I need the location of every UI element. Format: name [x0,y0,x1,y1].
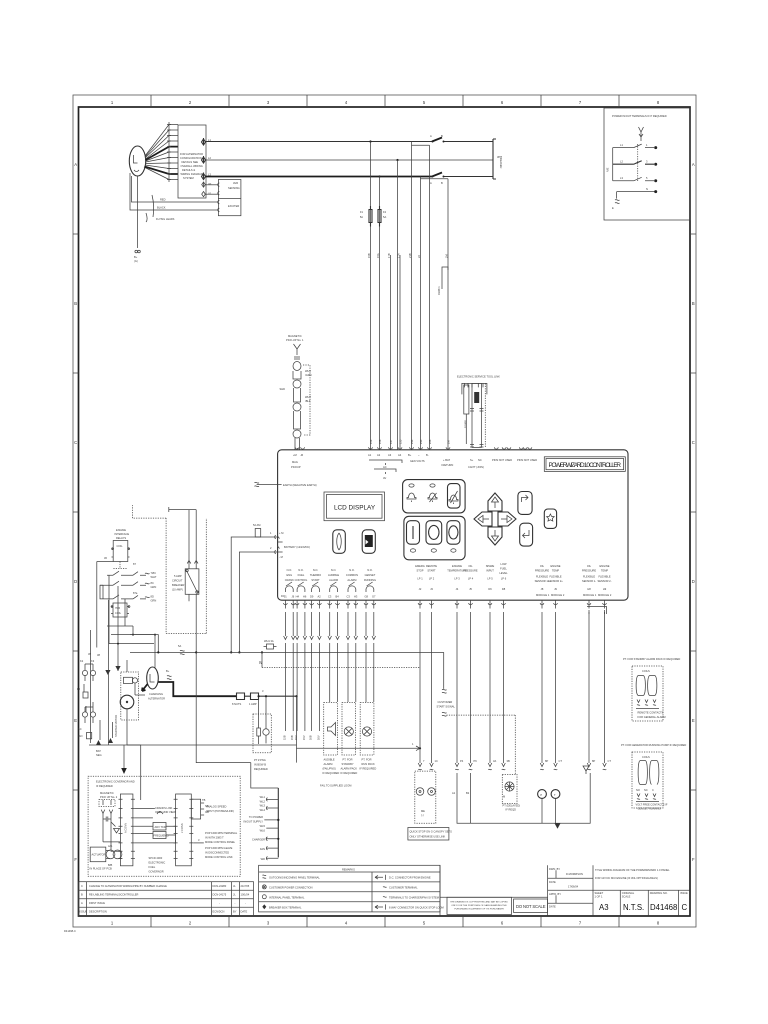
svg-text:ALTERNATOR: ALTERNATOR [148,697,165,701]
svg-text:MODULE 2: MODULE 2 [598,593,612,597]
svg-text:(G): (G) [134,259,138,263]
audible alarm dashed box [323,703,340,776]
svg-text:IF REQUIRED: IF REQUIRED [360,767,377,771]
svg-text:ONLY FOR THE PURPOSES OF SAFEG: ONLY FOR THE PURPOSES OF SAFEGUARDING TH… [451,904,507,907]
svg-text:D8: D8 [502,587,506,591]
ground symbol right [583,766,589,774]
svg-text:ORIGINAL: ORIGINAL [622,891,635,895]
svg-text:REMARKS: REMARKS [342,867,355,871]
svg-text:MODULE 1: MODULE 1 [583,593,597,597]
quick stop contacts [416,788,424,796]
svg-text:FAN: FAN [260,847,265,851]
svg-text:ADV TKD: ADV TKD [155,825,166,829]
svg-text:52 AM: 52 AM [253,523,260,527]
svg-text:CAN'T (JOIN): CAN'T (JOIN) [468,465,484,469]
open arrow terminals [418,763,606,770]
svg-text:START SIGNAL: START SIGNAL [437,705,456,709]
wire to governor strip [127,745,141,800]
svg-text:IN/OUT SUPPLY: IN/OUT SUPPLY [243,820,263,824]
relay contact symbols [285,582,373,592]
svg-text:8D: 8D [151,595,154,599]
svg-text:FOR GENERAL ALARM: FOR GENERAL ALARM [638,715,666,719]
arrow to governor [123,745,125,768]
svg-text:FAIL TO SUPPLIED LOOM: FAIL TO SUPPLIED LOOM [320,784,351,788]
svg-text:CHARGER: CHARGER [252,838,265,842]
breaker bracket [493,139,496,179]
label earth [278,484,282,486]
svg-text:MAGNETIC: MAGNETIC [288,334,302,338]
line fuse F6 [264,639,277,649]
input wires below controller [408,612,611,840]
svg-text:VOLT FREE CONTACTS IF: VOLT FREE CONTACTS IF [636,803,668,807]
svg-text:D6: D6 [488,587,492,591]
svg-text:P6: P6 [474,759,478,763]
label battery [278,542,283,552]
fuse 8 nuts [237,693,251,700]
svg-text:159: 159 [369,439,373,444]
svg-text:APPD. BY: APPD. BY [549,892,561,896]
svg-text:CRANKS LINK: CRANKS LINK [155,806,173,810]
svg-text:F: F [74,857,77,862]
svg-text:5A: 5A [178,644,181,648]
unused pins group2 [519,447,531,449]
controller top pin terminals [291,439,537,480]
svg-text:SENSOR 1-: SENSOR 1- [582,579,596,583]
svg-text:COIL: COIL [117,544,124,548]
svg-text:STOP: STOP [416,569,423,573]
svg-text:GOVERNOR: GOVERNOR [149,870,164,874]
svg-text:H9: H9 [603,587,607,591]
fuse F1 [369,206,372,227]
svg-text:G8: G8 [365,595,369,599]
svg-text:MODE CONTROL PANEL: MODE CONTROL PANEL [205,840,236,844]
earth stub [615,200,620,204]
svg-text:AVR: AVR [233,181,238,185]
svg-text:TERMINALS TO CHARGER/FAN SYSTE: TERMINALS TO CHARGER/FAN SYSTEM [389,895,439,899]
svg-text:LOW: LOW [501,562,507,566]
svg-text:POP 1600 RPM LEAVE: POP 1600 RPM LEAVE [205,846,233,850]
svg-text:GRN: GRN [151,585,157,589]
svg-text:COILS: COILS [642,755,650,759]
svg-text:OIL: OIL [468,564,473,568]
svg-text:WL5: WL5 [260,824,266,828]
svg-text:226: 226 [428,439,432,444]
svg-text:IN DISCONNECTED: IN DISCONNECTED [205,851,229,855]
svg-text:FOR ALTERNATOR: FOR ALTERNATOR [180,152,203,156]
svg-text:WL1: WL1 [260,795,266,799]
svg-text:1C: 1C [435,759,438,763]
keypad up arrow [488,493,502,511]
svg-text:D.MORRISON: D.MORRISON [566,872,583,876]
svg-text:43/48 1: 43/48 1 [437,286,441,295]
svg-text:ME: ME [421,809,425,813]
revision table [79,882,254,916]
svg-text:SENSING: SENSING [228,186,240,190]
svg-text:GENSET RUNNING: GENSET RUNNING [638,807,661,811]
breaker feed wires [169,507,196,569]
svg-text:ISSUE: ISSUE [680,891,688,895]
svg-text:CIRCUIT: CIRCUIT [172,579,183,583]
svg-text:- M: - M [279,555,283,559]
svg-text:A1: A1 [368,453,372,457]
svg-text:8P: 8P [592,759,595,763]
svg-text:WHT: WHT [305,369,311,373]
svg-text:PT (DELAYED): PT (DELAYED) [503,804,521,808]
svg-text:N.O.: N.O. [287,568,293,572]
svg-text:NEG: NEG [96,753,102,757]
svg-text:OIL: OIL [540,564,545,568]
charging alternator G2 [142,667,298,763]
svg-text:E: E [612,206,614,210]
svg-text:POP 1600 RPM TERMINAL: POP 1600 RPM TERMINAL [205,831,238,835]
coil feed wire [97,562,113,632]
svg-text:LP 2: LP 2 [429,577,435,581]
svg-text:N/E: N/E [606,167,610,172]
svg-text:5A: 5A [360,215,363,219]
remarks legend table [259,865,444,912]
svg-text:ACTUATOR: ACTUATOR [92,853,106,857]
svg-text:INTERNAL PANEL TERMINAL: INTERNAL PANEL TERMINAL [269,895,305,899]
svg-text:ISSUE: ISSUE [80,910,88,914]
svg-text:+ BAT: + BAT [443,458,451,462]
svg-text:A/A: A/A [108,844,112,848]
svg-text:A4: A4 [398,453,402,457]
wire L3 bus [206,176,433,178]
fuse F2 [378,206,381,227]
svg-text:AUDIBLE: AUDIBLE [328,573,339,577]
suppression capacitor [103,817,111,822]
svg-text:ALARM PACK: ALARM PACK [341,767,358,771]
png option dashed box [253,695,271,771]
svg-text:(-): (-) [421,813,424,817]
lamp pair [82,712,87,717]
alternator fan wires [144,125,169,180]
service connector body [472,383,481,447]
svg-text:H8: H8 [587,587,591,591]
svg-text:PT. FOR: PT. FOR [362,758,372,762]
svg-text:AUDIBLE: AUDIBLE [324,758,335,762]
svg-text:MODE CONTROL LINK: MODE CONTROL LINK [205,855,233,859]
svg-text:TEMP: TEMP [552,569,559,573]
svg-text:STANDBY: STANDBY [342,762,354,766]
svg-text:A: A [81,901,83,905]
svg-text:WH1 3A: WH1 3A [264,639,274,643]
svg-text:FLEXIBLE: FLEXIBLE [583,575,595,579]
keypad down arrow [488,527,502,545]
analog speed connector [191,799,200,819]
svg-text:A: A [692,162,695,167]
engine interface relay K1b coil [88,575,156,675]
svg-text:H4: H4 [296,595,300,599]
svg-text:TEMP: TEMP [601,569,608,573]
svg-text:LP 6: LP 6 [501,577,507,581]
svg-text:LEVEL: LEVEL [499,571,508,575]
svg-text:N.O.: N.O. [349,568,355,572]
svg-text:COILS: COILS [642,669,650,673]
svg-text:-: - [235,902,236,905]
svg-text:LCD DISPLAY: LCD DISPLAY [334,505,376,512]
svg-text:CT: CT [559,759,563,763]
svg-text:(10 AMP): (10 AMP) [172,588,183,592]
svg-text:GRN: GRN [151,599,157,603]
svg-text:RED: RED [160,198,166,202]
alternator G1 [129,122,241,263]
temp sender T1 [551,790,560,799]
svg-text:DATE: DATE [241,910,248,914]
earth dashed run [255,482,421,667]
svg-text:THERMO: THERMO [310,573,321,577]
keypad left arrow [474,512,492,526]
contact row 3 [103,595,146,599]
svg-text:5 AMP: 5 AMP [174,574,182,578]
actuator [90,847,106,862]
svg-text:BREAKER: BREAKER [172,583,185,587]
svg-text:TITLE WIRING DIAGRAM OF THE P: TITLE WIRING DIAGRAM OF THE POWERWIZARD … [595,868,670,872]
run stop button group [404,516,465,560]
svg-text:16B: 16B [309,735,313,740]
svg-text:B: B [81,893,83,897]
copyright note box [440,865,548,915]
terminal aux2 [202,192,206,197]
svg-text:PICKUP: PICKUP [291,465,301,469]
antenna symbol [639,127,644,141]
svg-text:CUSTOMER POWER CONNECTION: CUSTOMER POWER CONNECTION [269,886,313,890]
svg-text:RS485: RS485 [464,420,468,428]
svg-text:BREAKER BOX TERMINAL: BREAKER BOX TERMINAL [269,905,302,909]
svg-text:E: E [74,718,77,723]
screen drain [111,822,120,833]
svg-text:B-: B- [426,453,429,457]
svg-text:INTERFACE: INTERFACE [115,532,130,536]
svg-text:DCN-24280: DCN-24280 [213,884,227,888]
svg-text:C3: C3 [347,595,351,599]
battery pin [446,447,450,449]
svg-text:H6: H6 [303,595,307,599]
svg-text:LP 4: LP 4 [468,577,474,581]
switch gang dashed link [637,144,639,181]
svg-text:ANALOG SPEED: ANALOG SPEED [206,805,226,809]
svg-text:POWER IN/OUT TERMINALS IF P RE: POWER IN/OUT TERMINALS IF P REQUIRED [612,114,667,118]
legend symbols [263,875,267,878]
rpm note [193,842,204,844]
svg-text:A2: A2 [377,453,381,457]
svg-text:PT. FOR GENERATOR RUNNING PUMP: PT. FOR GENERATOR RUNNING PUMP IF REQUIR… [621,743,686,747]
AC input pins [369,447,402,449]
svg-text:N.O.: N.O. [313,568,319,572]
supply bus to WL strip [130,635,278,788]
svg-text:FIRST ISSUE: FIRST ISSUE [89,901,105,905]
svg-text:INPUT (POT/RES/LINK): INPUT (POT/RES/LINK) [206,809,234,813]
svg-text:A2: A2 [318,595,322,599]
svg-text:F: F [692,857,695,862]
svg-text:START: START [311,578,320,582]
svg-text:ALARM: ALARM [347,578,356,582]
svg-text:-: - [245,902,246,905]
svg-text:15V: 15V [302,735,306,740]
svg-text:A: A [74,162,77,167]
wire RED [132,176,219,202]
svg-text:B: B [692,301,695,306]
vertical feeders [371,142,398,451]
scroll button 2 [362,530,375,554]
svg-text:IF REQUIRED: IF REQUIRED [96,784,113,788]
svg-text:87a: 87a [133,591,138,595]
svg-text:NO: NO [636,788,640,792]
svg-text:FLEXIBLE: FLEXIBLE [549,575,561,579]
svg-text:N.O.: N.O. [331,568,337,572]
title block [548,865,690,915]
svg-text:AV: AV [383,476,387,480]
svg-text:CUSTOMER: CUSTOMER [438,700,453,704]
svg-text:I RETURN: I RETURN [441,463,453,467]
svg-text:C: C [652,788,654,792]
svg-text:OVERALL WIRING: OVERALL WIRING [181,164,203,168]
svg-text:15V: 15V [294,735,298,740]
svg-text:A3: A3 [599,903,609,912]
svg-text:SYSTEM: SYSTEM [183,176,194,180]
svg-text:CONTROL: CONTROL [295,578,308,582]
svg-text:-: - [219,902,220,905]
svg-text:ONLY OTHERWISE USE LINK: ONLY OTHERWISE USE LINK [410,835,446,839]
svg-text:A CONN: A CONN [124,823,128,833]
controller bottom edge terminals and wires [282,593,611,740]
wire L1 bus [206,141,494,143]
spare loop connector [442,267,448,289]
svg-text:THE DRAWING IS COPYRIGHTED AND: THE DRAWING IS COPYRIGHTED AND MAY BE CO… [450,900,508,903]
quick stop note box [408,828,449,841]
svg-text:1 AMP: 1 AMP [249,702,257,706]
svg-text:17B: 17B [387,253,391,258]
svg-text:WHT: WHT [305,395,311,399]
svg-text:2M: 2M [447,440,451,444]
pressure sender P1 [538,790,547,799]
wire L2 bus [206,159,494,161]
svg-text:B/B: B/B [108,863,112,867]
svg-text:C: C [81,884,83,888]
bold charge wire [158,682,236,696]
svg-text:J CONN: J CONN [180,823,184,833]
svg-text:IF REQD: IF REQD [506,808,517,812]
svg-text:WHT: WHT [151,575,157,579]
svg-text:P: P [540,793,542,797]
svg-text:ALARM: ALARM [329,578,338,582]
svg-text:N.O.: N.O. [298,568,304,572]
flying leads label [152,195,154,217]
svg-text:ENGINE: ENGINE [116,528,126,532]
svg-text:D41468-C: D41468-C [64,929,76,933]
svg-text:ISO: ISO [78,734,82,738]
svg-text:E: E [692,718,695,723]
svg-text:REQUIRED: REQUIRED [254,767,268,771]
svg-text:N: N [646,187,648,191]
svg-text:A: A [430,134,432,138]
svg-text:H3: H3 [354,595,358,599]
svg-text:EMERG: EMERG [415,564,425,568]
svg-text:LP 3: LP 3 [454,577,460,581]
terminal L1 [202,138,206,145]
neutral wire [617,192,656,199]
svg-text:ENG: ENG [286,573,292,577]
svg-text:REMOTE CONTACTS: REMOTE CONTACTS [638,711,664,715]
svg-text:B4: B4 [336,595,340,599]
unused pins group1 [494,447,510,449]
svg-text:BLACK: BLACK [157,206,166,210]
breaker output drop [195,594,197,652]
battery feed to controller [230,523,278,654]
svg-text:3A: 3A [493,759,496,763]
svg-text:PICK-UP No. 1: PICK-UP No. 1 [286,338,304,342]
module bracket [587,607,607,615]
electronic service tool link [457,375,500,470]
bus wires from alternator to breaker [206,134,504,450]
breaker CB1 5 amp [132,505,206,652]
svg-text:D: D [74,579,77,584]
wire number labels [367,253,449,258]
svg-text:(FAIL/PNG): (FAIL/PNG) [323,767,337,771]
svg-text:BATTERY (12/24VDC): BATTERY (12/24VDC) [284,545,310,549]
svg-text:PT. FOR: PT. FOR [343,758,353,762]
svg-text:C: C [74,440,77,445]
engine interface relay K1 [97,528,157,632]
switch pole L2 [613,161,654,165]
svg-text:ENGINE: ENGINE [452,564,462,568]
svg-text:MODULE 2: MODULE 2 [551,593,565,597]
ground arrow [555,823,561,829]
customer start signal wire [196,652,515,774]
ruler letters [74,162,695,862]
svg-text:K3: K3 [91,659,95,663]
svg-text:DESCRIPTION: DESCRIPTION [89,910,107,914]
svg-text:LP 5: LP 5 [487,577,493,581]
svg-text:17/06/04: 17/06/04 [568,885,579,889]
svg-text:10/1/04: 10/1/04 [241,893,250,897]
svg-text:DATE: DATE [549,880,556,884]
svg-text:IN BOW B: IN BOW B [254,763,266,767]
wire B+ drop [137,176,139,248]
svg-text:D41468: D41468 [650,903,677,912]
switch pole L1 [613,144,654,148]
svg-text:GENSET: GENSET [365,573,376,577]
controller U1 POWERWIZARD [278,450,629,600]
ruler numbers [111,100,660,926]
svg-text:AC: AC [383,465,387,469]
svg-text:RELAYS: RELAYS [116,536,126,540]
svg-text:FUEL: FUEL [298,573,305,577]
svg-text:N.T.S.: N.T.S. [623,903,644,912]
drawing sheet inner border [79,107,691,916]
svg-text:STARTER MOTOR: STARTER MOTOR [114,715,118,737]
svg-text:155: 155 [399,439,403,444]
svg-text:DETAILS SEE: DETAILS SEE [182,160,199,164]
svg-text:/GRN: /GRN [305,373,312,377]
controller bottom relay outputs [281,562,612,599]
svg-text:A: A [430,181,432,185]
svg-text:C: C [682,903,688,912]
svg-text:BAT: BAT [96,749,101,753]
svg-text:V0: V0 [208,182,212,186]
svg-text:8 WAY CONNECTOR ON QUICK STOP: 8 WAY CONNECTOR ON QUICK STOP LOOM [389,905,444,909]
svg-text:INPUT: INPUT [486,569,494,573]
svg-text:ELECTRONIC SERVICE TOOL LINK: ELECTRONIC SERVICE TOOL LINK [457,375,500,379]
svg-text:B2: B2 [466,791,470,795]
AVR sensing/exciter box [218,180,241,216]
standby alarm pack option [623,657,680,721]
breaker pole 1 [432,138,442,142]
svg-text:B+: B+ [408,453,412,457]
svg-text:FOR 12V DC MUI ENGINE (IF 3NL: FOR 12V DC MUI ENGINE (IF 3NL OPTIONAL/D… [595,876,658,880]
svg-text:M: M [503,795,505,799]
svg-text:CHANGE TO ALTERNATOR WIRING/PI: CHANGE TO ALTERNATOR WIRING/PIPE BY NUMB… [89,884,167,888]
